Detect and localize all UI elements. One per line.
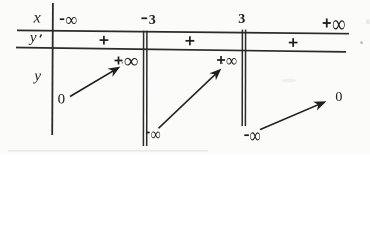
arrow interval 1 (70, 67, 120, 97)
svg-text:y: y (28, 30, 37, 46)
label +infinity (interval 1 top) (115, 50, 139, 72)
label +infinity (x row right) (323, 10, 346, 37)
scan noise: gray dot right of + (360, 41, 363, 44)
label +infinity (interval 2 top) (217, 50, 237, 71)
arrow interval 3 (260, 101, 327, 129)
label y' (28, 30, 42, 46)
svg-text:3: 3 (238, 12, 245, 27)
node -3: double vertical bar (143, 31, 147, 146)
svg-text:0: 0 (335, 90, 342, 105)
wire: horizontal rule under x row (17, 30, 349, 33)
scan noise: faint smudge above arrow 3 (282, 79, 297, 83)
scan noise: speck above arrowhead 1 (122, 62, 124, 64)
arrow interval 2 (159, 69, 222, 129)
svg-text:3: 3 (149, 13, 156, 28)
svg-text:∞: ∞ (66, 8, 77, 30)
svg-text:x: x (33, 9, 41, 26)
scan noise: right edge mark (366, 20, 369, 25)
scan noise: faint bottom smudge (8, 150, 208, 152)
label -infinity (x row) (60, 8, 77, 30)
wire: horizontal rule under y' row (16, 48, 346, 52)
sign + interval 3 (289, 38, 298, 47)
wire: header column vertical line (51, 3, 54, 135)
svg-text:∞: ∞ (332, 10, 345, 37)
svg-text:∞: ∞ (226, 50, 237, 71)
svg-text:0: 0 (58, 92, 66, 108)
node 3: double vertical bar (242, 30, 245, 126)
svg-text:∞: ∞ (250, 124, 261, 147)
label -infinity (interval 3 bottom) (244, 124, 260, 147)
label -infinity (interval 2 bottom) (146, 125, 161, 144)
svg-text:y: y (32, 69, 41, 85)
sign + interval 2 (186, 36, 195, 45)
label -3 (141, 13, 155, 28)
scan noise: speck above arrowhead 2 (221, 62, 223, 64)
sign + interval 1 (100, 36, 109, 45)
svg-text:∞: ∞ (124, 50, 138, 72)
